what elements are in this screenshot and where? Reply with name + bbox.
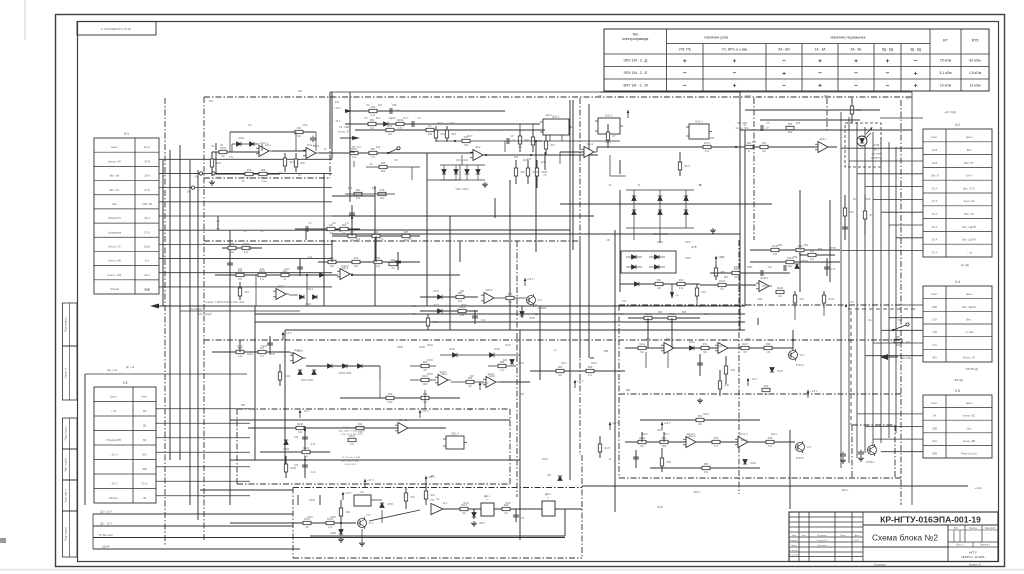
- svg-text:VD41: VD41: [518, 363, 524, 365]
- svg-text:6В: 6В: [413, 305, 416, 308]
- svg-text:+ 1 Uвх: + 1 Uвх: [964, 330, 974, 334]
- svg-text:Контр. ДВ: Контр. ДВ: [963, 439, 976, 443]
- svg-text:ДА1.1: ДА1.1: [552, 115, 560, 119]
- svg-text:(Д) + 1в: (Д) + 1в: [126, 367, 135, 369]
- svg-text:R52: R52: [798, 249, 803, 251]
- svg-text:– 15 V: – 15 V: [333, 120, 341, 123]
- svg-text:R137: R137: [704, 142, 711, 145]
- svg-text:Х1 - 26В: Х1 - 26В: [339, 125, 349, 129]
- svg-text:DA5, DA10, 7 DA2, 14 DD1: DA5, DA10, 7 DA2, 14 DD1: [339, 430, 367, 433]
- svg-text:+: +: [886, 58, 890, 65]
- svg-text:31 А: 31 А: [142, 481, 148, 485]
- svg-text:9А - 9Б: 9А - 9Б: [851, 48, 862, 52]
- svg-text:R13*: R13*: [437, 123, 442, 125]
- svg-text:Лист 1: Лист 1: [956, 543, 964, 547]
- svg-text:DA11.2: DA11.2: [739, 432, 748, 436]
- svg-text:Цепь: Цепь: [111, 145, 118, 149]
- svg-text:R75: R75: [972, 39, 979, 43]
- svg-text:Контр. ЗН: Контр. ЗН: [108, 159, 120, 163]
- svg-text:Схема блока №2: Схема блока №2: [872, 533, 938, 543]
- svg-text:R10: R10: [376, 147, 381, 149]
- svg-text:75 кОм: 75 кОм: [940, 59, 952, 63]
- svg-text:R33: R33: [698, 415, 703, 418]
- svg-text:R98: R98: [766, 343, 771, 346]
- svg-text:R103: R103: [645, 313, 652, 316]
- svg-text:Изм: Изм: [792, 535, 797, 537]
- svg-text:29 А: 29 А: [144, 216, 150, 220]
- svg-text:R11: R11: [298, 90, 303, 93]
- svg-text:+15 V: +15 V: [527, 277, 534, 281]
- svg-text:R111: R111: [639, 343, 645, 346]
- svg-text:R93: R93: [788, 123, 793, 126]
- svg-text:–: –: [683, 82, 687, 89]
- svg-text:R72: R72: [670, 313, 675, 316]
- svg-text:+15 V: +15 V: [422, 409, 429, 413]
- svg-text:VT2: VT2: [800, 354, 805, 357]
- svg-text:Сизов Б.П.: Сизов Б.П.: [817, 540, 828, 542]
- svg-text:R103: R103: [261, 346, 267, 348]
- svg-text:+ 15 V К конт. 8,10 DA3: + 15 V К конт. 8,10 DA3: [340, 426, 364, 429]
- svg-text:ЭА1.2: ЭА1.2: [313, 145, 320, 148]
- svg-text:"Вкл.": "Вкл.": [873, 150, 879, 152]
- svg-text:+пUв: +пUв: [975, 486, 982, 490]
- svg-text:R7: R7: [943, 39, 948, 43]
- svg-text:R25: R25: [301, 163, 306, 165]
- svg-text:ДД2: ДД2: [468, 408, 473, 411]
- svg-text:VD17: VD17: [685, 242, 691, 244]
- svg-text:DA5, DA10, 4 DA2: DA5, DA10, 4 DA2: [341, 460, 360, 463]
- svg-text:R117: R117: [685, 166, 691, 168]
- svg-text:R54: R54: [804, 244, 809, 247]
- svg-text:VD67: VD67: [479, 523, 485, 525]
- svg-text:R120: R120: [533, 172, 539, 174]
- svg-text:С12: С12: [308, 256, 313, 259]
- svg-text:8,9В: 8,9В: [144, 288, 150, 292]
- svg-text:Общий РС: Общий РС: [108, 216, 121, 220]
- svg-text:(4Б): (4Б): [430, 476, 435, 478]
- svg-text:R104: R104: [427, 344, 433, 347]
- svg-text:R88: R88: [798, 245, 803, 248]
- svg-text:R119: R119: [285, 376, 291, 378]
- svg-text:R115: R115: [829, 299, 835, 301]
- svg-text:R15: R15: [450, 123, 455, 125]
- svg-text:Коррекция: Коррекция: [108, 230, 122, 234]
- svg-text:Масштаб: Масштаб: [985, 527, 996, 530]
- svg-text:28 В: 28 В: [144, 174, 150, 178]
- svg-text:R39: R39: [866, 198, 871, 201]
- svg-text:Цепь: Цепь: [966, 135, 973, 139]
- svg-text:4 DD1, DD2: 4 DD1, DD2: [344, 464, 357, 466]
- svg-text:R107: R107: [505, 344, 511, 347]
- svg-text:R48: R48: [503, 360, 508, 362]
- svg-text:+15 V: +15 V: [367, 478, 374, 482]
- svg-text:R43: R43: [800, 299, 805, 301]
- svg-text:R114: R114: [663, 434, 669, 436]
- svg-text:ЗП: ЗП: [547, 473, 551, 477]
- svg-text:Конт.: Конт.: [931, 135, 938, 139]
- svg-text:R107: R107: [742, 343, 749, 346]
- svg-text:+: +: [733, 83, 737, 90]
- svg-text:К вилк. 7 ВО2 ОО6, 1 О31, ОН2: К вилк. 7 ВО2 ОО6, 1 О31, ОН2: [205, 300, 245, 304]
- svg-text:R126: R126: [243, 243, 250, 246]
- svg-text:VT4: VT4: [430, 499, 435, 502]
- svg-text:VT4: VT4: [366, 515, 371, 517]
- svg-text:С39: С39: [294, 437, 299, 439]
- svg-text:29В: 29В: [932, 305, 937, 309]
- svg-text:4А: 4А: [242, 180, 245, 183]
- svg-text:4А: 4А: [638, 184, 641, 187]
- svg-text:R101: R101: [237, 346, 243, 348]
- svg-text:ЭПУ 1М - 2...Д: ЭПУ 1М - 2...Д: [623, 59, 648, 63]
- svg-text:R17*: R17*: [403, 118, 408, 120]
- svg-text:26 А: 26 А: [932, 225, 938, 229]
- svg-text:(Д) – 15 V: (Д) – 15 V: [100, 521, 112, 525]
- svg-text:Копировал: Копировал: [874, 564, 887, 567]
- svg-text:R102: R102: [220, 147, 227, 150]
- svg-text:ЭА11.1: ЭА11.1: [688, 435, 696, 438]
- svg-text:С3В: С3В: [392, 105, 397, 107]
- svg-text:R132: R132: [297, 423, 304, 426]
- svg-text:С14: С14: [481, 320, 486, 322]
- svg-text:R123: R123: [542, 458, 548, 461]
- svg-text:Общий: Общий: [110, 287, 119, 291]
- svg-text:R49: R49: [346, 512, 351, 514]
- svg-text:30В: 30В: [932, 451, 937, 455]
- svg-text:Контр. ВС: Контр. ВС: [963, 414, 975, 418]
- svg-text:1Б,Б: 1Б,Б: [144, 244, 150, 248]
- svg-text:Вкл. УЗ: Вкл. УЗ: [964, 212, 974, 216]
- svg-text:1М: 1М: [423, 370, 426, 372]
- svg-text:ЭА3.2: ЭА3.2: [342, 267, 349, 270]
- svg-text:R39: R39: [388, 393, 393, 396]
- svg-text:+: +: [683, 58, 687, 65]
- svg-text:С70: С70: [831, 269, 836, 271]
- svg-text:R117: R117: [433, 322, 439, 324]
- svg-text:Вкл. ЦЗУВ: Вкл. ЦЗУВ: [962, 225, 975, 229]
- svg-text:30В: 30В: [142, 467, 147, 471]
- svg-text:5А - 8И: 5А - 8И: [778, 48, 790, 52]
- svg-text:(2): (2): [907, 97, 910, 100]
- svg-text:R30: R30: [679, 279, 684, 282]
- svg-text:ЭА9.2: ЭА9.2: [719, 345, 726, 348]
- svg-text:Вкл.: Вкл.: [966, 317, 972, 321]
- svg-text:30А: 30А: [142, 452, 147, 456]
- svg-text:1М: 1М: [221, 156, 224, 158]
- svg-text:Подп.: Подп.: [840, 535, 846, 537]
- svg-text:R113: R113: [657, 429, 663, 432]
- svg-text:R15: R15: [514, 157, 519, 159]
- svg-text:Пров.: Пров.: [791, 545, 797, 547]
- svg-text:VD08: VD08: [238, 137, 245, 140]
- svg-text:R68*: R68*: [747, 267, 752, 269]
- svg-text:Контр. 2Н1: Контр. 2Н1: [108, 273, 122, 277]
- svg-text:1В: 1В: [143, 409, 146, 413]
- svg-text:R81: R81: [391, 259, 396, 262]
- svg-text:КТ3107: КТ3107: [796, 457, 805, 460]
- svg-text:R77: R77: [870, 215, 875, 217]
- svg-text:ЭА7.1: ЭА7.1: [297, 350, 304, 353]
- svg-text:0,22: 0,22: [311, 472, 316, 474]
- svg-text:–: –: [683, 70, 687, 77]
- svg-text:+15 V: +15 V: [285, 331, 292, 335]
- svg-text:(З): (З): [544, 175, 547, 177]
- svg-text:Наличие перемычек: Наличие перемычек: [831, 36, 866, 40]
- svg-text:R94: R94: [658, 312, 663, 314]
- svg-text:R72: R72: [703, 343, 708, 346]
- svg-text:R128: R128: [307, 517, 313, 519]
- svg-text:КТ361А: КТ361А: [866, 461, 875, 464]
- svg-text:R52: R52: [778, 244, 783, 247]
- svg-text:Iвх (Д): Iвх (Д): [961, 263, 970, 267]
- svg-text:R117: R117: [561, 363, 567, 365]
- svg-text:ЭА8.2: ЭА8.2: [489, 375, 496, 378]
- svg-text:+24 V: +24 V: [965, 174, 972, 178]
- svg-text:+24 V(Д): +24 V(Д): [944, 110, 956, 114]
- svg-text:8Д: 8Д: [535, 313, 538, 316]
- svg-text:VD16: VD16: [657, 242, 663, 244]
- svg-text:R35: R35: [381, 162, 386, 165]
- svg-text:R106: R106: [419, 346, 425, 349]
- svg-text:Вкл. СУО: Вкл. СУО: [963, 186, 975, 190]
- svg-text:Конт.: Конт.: [931, 292, 938, 296]
- svg-text:ЭПУ 1М - 2...Е: ЭПУ 1М - 2...Е: [623, 71, 648, 75]
- svg-text:ЭПУ 1М - 2...М: ЭПУ 1М - 2...М: [623, 83, 648, 87]
- svg-text:+5В (Д): +5В (Д): [953, 378, 963, 382]
- svg-text:5А: 5А: [217, 228, 220, 231]
- svg-text:VD20: VD20: [305, 304, 311, 306]
- svg-text:Конт. Н2: Конт. Н2: [964, 199, 975, 203]
- svg-text:VD48: VD48: [873, 144, 880, 147]
- svg-text:R24: R24: [523, 160, 528, 162]
- svg-text:6В: 6В: [143, 438, 146, 442]
- svg-text:R16: R16: [551, 145, 556, 147]
- svg-text:R134: R134: [657, 506, 663, 509]
- svg-text:27 А: 27 А: [932, 250, 938, 254]
- svg-text:+ 1в: + 1в: [111, 409, 117, 413]
- svg-text:Лит.: Лит.: [954, 526, 959, 530]
- svg-text:R101: R101: [247, 353, 253, 356]
- svg-text:ЭА9.1: ЭА9.1: [689, 341, 696, 344]
- svg-text:ЭА8.1: ЭА8.1: [441, 373, 448, 376]
- svg-text:Конт.: Конт.: [144, 145, 151, 149]
- svg-text:Тип: Тип: [632, 33, 638, 37]
- svg-text:R121: R121: [771, 434, 777, 436]
- svg-text:R108: R108: [542, 172, 548, 174]
- svg-text:КТ361В: КТ361В: [538, 307, 547, 310]
- svg-text:КТ3117: КТ3117: [796, 364, 805, 367]
- svg-text:28 А: 28 А: [932, 238, 938, 242]
- svg-text:Х.1: Х.1: [124, 132, 129, 136]
- svg-text:R21: R21: [850, 212, 855, 214]
- svg-text:1А - 3А: 1А - 3А: [815, 48, 827, 52]
- svg-text:ДТВ: ДТВ: [691, 245, 696, 249]
- svg-text:3А: 3А: [217, 175, 220, 179]
- svg-text:ДВ: ДВ: [626, 388, 630, 392]
- svg-text:6 А: 6 А: [145, 259, 149, 263]
- svg-text:–: –: [818, 70, 822, 77]
- svg-text:23А: 23А: [932, 317, 937, 321]
- svg-text:DA4.2: DA4.2: [399, 418, 407, 422]
- svg-text:– 15 V: – 15 V: [302, 409, 310, 413]
- svg-text:R58: R58: [793, 256, 798, 259]
- svg-text:27 А: 27 А: [932, 199, 938, 203]
- svg-text:23 В: 23 В: [932, 161, 938, 165]
- svg-text:DD1.1: DD1.1: [694, 491, 701, 494]
- svg-text:R16: R16: [354, 257, 359, 260]
- svg-text:(Л) Общий: (Л) Общий: [190, 308, 202, 311]
- svg-text:СР: СР: [512, 140, 516, 143]
- svg-text:VД4(2): VД4(2): [388, 118, 395, 120]
- svg-text:R103: R103: [291, 468, 297, 470]
- svg-text:R16: R16: [702, 292, 707, 294]
- svg-text:5А: 5А: [933, 414, 936, 418]
- svg-text:R188: R188: [330, 517, 336, 519]
- svg-text:R36: R36: [752, 142, 757, 144]
- svg-text:R73: R73: [714, 437, 719, 440]
- svg-text:Х1.1: Х1.1: [898, 319, 904, 322]
- svg-text:Вкл. ФЕЗН: Вкл. ФЕЗН: [962, 305, 975, 309]
- svg-text:4А: 4А: [609, 184, 612, 187]
- svg-text:(2): (2): [676, 295, 679, 297]
- svg-text:+15 V: +15 V: [664, 421, 671, 425]
- svg-text:+15 V: +15 V: [612, 421, 619, 425]
- svg-text:R88: R88: [230, 243, 235, 246]
- svg-text:(Д)ИР: (Д)ИР: [102, 544, 110, 548]
- svg-text:Вкл. ЦЗУФ: Вкл. ЦЗУФ: [962, 238, 975, 242]
- svg-text:1,5 кОм: 1,5 кОм: [969, 71, 982, 75]
- svg-text:Н. контр.: Н. контр.: [789, 555, 798, 557]
- svg-text:0,22: 0,22: [311, 444, 316, 446]
- svg-text:31А: 31А: [932, 439, 937, 443]
- svg-text:–: –: [782, 57, 786, 64]
- svg-text:Инв. № дубл: Инв. № дубл: [65, 457, 68, 471]
- svg-text:Конт.: Конт.: [931, 401, 938, 405]
- svg-text:+: +: [818, 58, 822, 65]
- svg-text:R18: R18: [411, 497, 416, 499]
- svg-text:R39: R39: [725, 385, 730, 387]
- svg-text:ЭА4.2: ЭА4.2: [587, 143, 594, 146]
- svg-text:R54: R54: [431, 495, 436, 497]
- svg-text:R17: R17: [378, 105, 383, 107]
- svg-text:Перв. примен.: Перв. примен.: [66, 317, 68, 333]
- svg-text:Подп. и дата: Подп. и дата: [66, 426, 68, 440]
- svg-text:19А, В: 19А, В: [930, 174, 938, 178]
- svg-text:Справ. №: Справ. №: [65, 367, 68, 378]
- svg-text:(Д) + 15 V: (Д) + 15 V: [100, 509, 112, 513]
- svg-text:26 В: 26 В: [144, 159, 150, 163]
- svg-text:УЗТ, РЕ: УЗТ, РЕ: [678, 48, 691, 52]
- svg-text:R55: R55: [261, 169, 266, 172]
- svg-text:R101: R101: [719, 280, 726, 283]
- svg-text:R91: R91: [646, 339, 651, 341]
- svg-text:13 кОм: 13 кОм: [969, 83, 981, 87]
- svg-text:R88: R88: [604, 350, 609, 353]
- svg-text:Вкл. РС: Вкл. РС: [110, 188, 120, 192]
- svg-text:R25: R25: [404, 231, 409, 234]
- svg-text:ИП: ИП: [241, 403, 245, 407]
- svg-text:45А: 45А: [932, 355, 937, 359]
- svg-text:БРЧВ (Д): БРЧВ (Д): [966, 367, 978, 371]
- svg-text:10 кОм: 10 кОм: [940, 83, 952, 87]
- svg-text:R90: R90: [762, 286, 767, 288]
- svg-text:Иср: Иср: [967, 426, 972, 430]
- svg-text:Uвх: Uвх: [112, 202, 117, 206]
- svg-text:R96: R96: [682, 312, 687, 314]
- svg-text:DD1.4: DD1.4: [451, 432, 459, 436]
- svg-text:R49: R49: [374, 231, 379, 234]
- svg-text:DA1.2: DA1.2: [605, 114, 613, 118]
- svg-text:170Бк: 170Бк: [261, 181, 267, 183]
- svg-text:12,1: 12,1: [443, 503, 448, 505]
- svg-text:VD40: VD40: [494, 349, 500, 351]
- svg-text:+: +: [914, 70, 918, 77]
- svg-text:Цепь: Цепь: [110, 394, 117, 398]
- svg-text:R37: R37: [853, 198, 858, 201]
- svg-text:R118: R118: [591, 363, 597, 365]
- svg-text:ОБ: ОБ: [698, 305, 702, 308]
- svg-text:Наличие узла: Наличие узла: [704, 36, 729, 40]
- svg-text:Контр. УС: Контр. УС: [108, 244, 120, 248]
- svg-text:R14: R14: [388, 125, 393, 128]
- svg-text:VD66: VD66: [387, 504, 393, 506]
- svg-text:DA9.2: DA9.2: [719, 338, 727, 342]
- svg-text:Контр. ЗН: Контр. ЗН: [338, 130, 350, 134]
- svg-text:УОТ: УОТ: [745, 94, 751, 98]
- svg-text:Взам. инв.№: Взам. инв.№: [65, 488, 68, 502]
- svg-text:R37*: R37*: [461, 305, 466, 307]
- svg-text:2А: 2А: [217, 220, 220, 223]
- svg-text:Реле о/с пит: Реле о/с пит: [961, 451, 977, 455]
- svg-text:ЗЗУ: ЗЗУ: [823, 94, 829, 98]
- svg-text:R40: R40: [372, 188, 377, 190]
- svg-text:+: +: [914, 83, 918, 90]
- svg-text:R47: R47: [762, 142, 767, 145]
- svg-text:Х.2: Х.2: [955, 123, 960, 127]
- svg-text:1Ом*: 1Ом*: [284, 269, 290, 271]
- svg-text:R83: R83: [896, 336, 901, 339]
- svg-text:Лист: Лист: [802, 535, 807, 537]
- svg-text:R128: R128: [309, 499, 315, 502]
- svg-text:R13*: R13*: [467, 136, 472, 138]
- svg-text:R21: R21: [376, 118, 381, 120]
- svg-text:VD22: VD22: [433, 305, 439, 307]
- svg-text:2Б: 2Б: [607, 239, 610, 242]
- svg-text:R95: R95: [746, 339, 751, 341]
- svg-text:ЭА11.2: ЭА11.2: [740, 439, 748, 442]
- svg-text:КР-НГТУ-016ЭПА-001-19: КР-НГТУ-016ЭПА-001-19: [880, 514, 981, 524]
- svg-text:– 24 V: – 24 V: [750, 377, 758, 381]
- svg-text:R105: R105: [427, 360, 433, 362]
- svg-text:+: +: [854, 58, 858, 65]
- svg-text:1М: 1М: [329, 233, 332, 235]
- svg-text:–: –: [854, 70, 858, 77]
- svg-text:ЭАВ.1: ЭАВ.1: [760, 276, 768, 280]
- svg-text:DA1.2: DA1.2: [695, 120, 703, 124]
- svg-text:Работа: Работа: [109, 496, 118, 500]
- svg-text:2А: 2А: [186, 190, 189, 194]
- svg-text:R79: R79: [380, 189, 385, 192]
- svg-text:21В, 3В: 21В, 3В: [142, 202, 152, 206]
- svg-text:К2: К2: [360, 490, 364, 494]
- svg-text:Цепь: Цепь: [966, 292, 973, 296]
- svg-text:Подп. и дата: Подп. и дата: [66, 527, 68, 541]
- svg-text:VD9...VD12: VD9...VD12: [456, 160, 469, 162]
- svg-text:DD1.2: DD1.2: [842, 489, 849, 492]
- svg-text:R18: R18: [452, 134, 457, 136]
- svg-text:ЭА4.2: ЭА4.2: [605, 141, 612, 144]
- svg-text:R34: R34: [710, 138, 715, 140]
- svg-text:VD65: VD65: [330, 533, 336, 535]
